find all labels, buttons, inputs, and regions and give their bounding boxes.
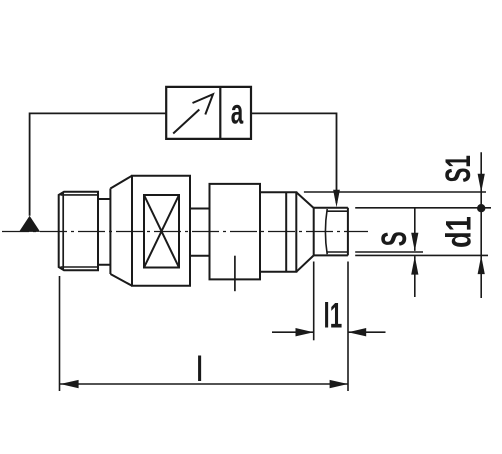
datum triangle [19,216,40,232]
leader right [251,113,337,203]
S1 arrow down [478,174,485,193]
small threaded end [314,208,348,256]
mark below second rect [234,256,236,292]
l1 arrow right [296,328,314,336]
l arrow right [330,380,348,388]
dimension S arrow up [411,256,418,275]
extension line root bottom [355,251,423,253]
svg-text:S: S [375,231,414,246]
dimension S arrow down [411,233,418,252]
thread chamfer line [62,193,64,270]
extension line part left end [59,276,61,391]
leader arrowhead [333,190,340,208]
leader left [30,113,167,215]
svg-text:d1: d1 [439,216,478,248]
junction dot [477,204,485,212]
hex body rect [132,176,190,286]
centerline [2,231,368,233]
thread end body (left male thread) [59,192,98,270]
thread root bottom [61,266,99,268]
neck 1 [98,199,110,265]
thread runout arc [325,209,327,254]
svg-text:l: l [197,350,203,389]
l arrow left [60,380,78,388]
cone 2 [296,192,313,272]
collar divider [285,192,287,272]
thread root top [61,194,99,196]
svg-text:S1: S1 [439,155,478,182]
dimension S line upper [414,209,416,251]
flow symbol box [166,87,251,139]
dimension S line lower [414,256,416,297]
extension line small end top [355,207,491,209]
d1 arrow up [478,256,485,275]
extension line part right end [347,262,349,392]
dimension l line [60,383,349,385]
small end thread roots [327,211,348,252]
box arrow open head [193,94,214,114]
svg-text:l1: l1 [324,297,343,336]
crossed inner rect [144,195,179,268]
dimension S1 d1 line [480,152,482,298]
box arrow shaft [173,110,199,134]
collar section [260,192,296,272]
extension line crest bottom [355,254,488,256]
extension line top S1 [304,191,486,193]
second body rect [210,184,261,280]
dimension l1 line right [348,331,386,333]
dimension l1 line left [272,331,314,333]
neck 2 [190,209,210,256]
svg-text:a: a [231,93,244,132]
extension line l1 left [313,262,315,341]
cone 1 [110,176,132,286]
l1 arrow left [348,328,366,336]
